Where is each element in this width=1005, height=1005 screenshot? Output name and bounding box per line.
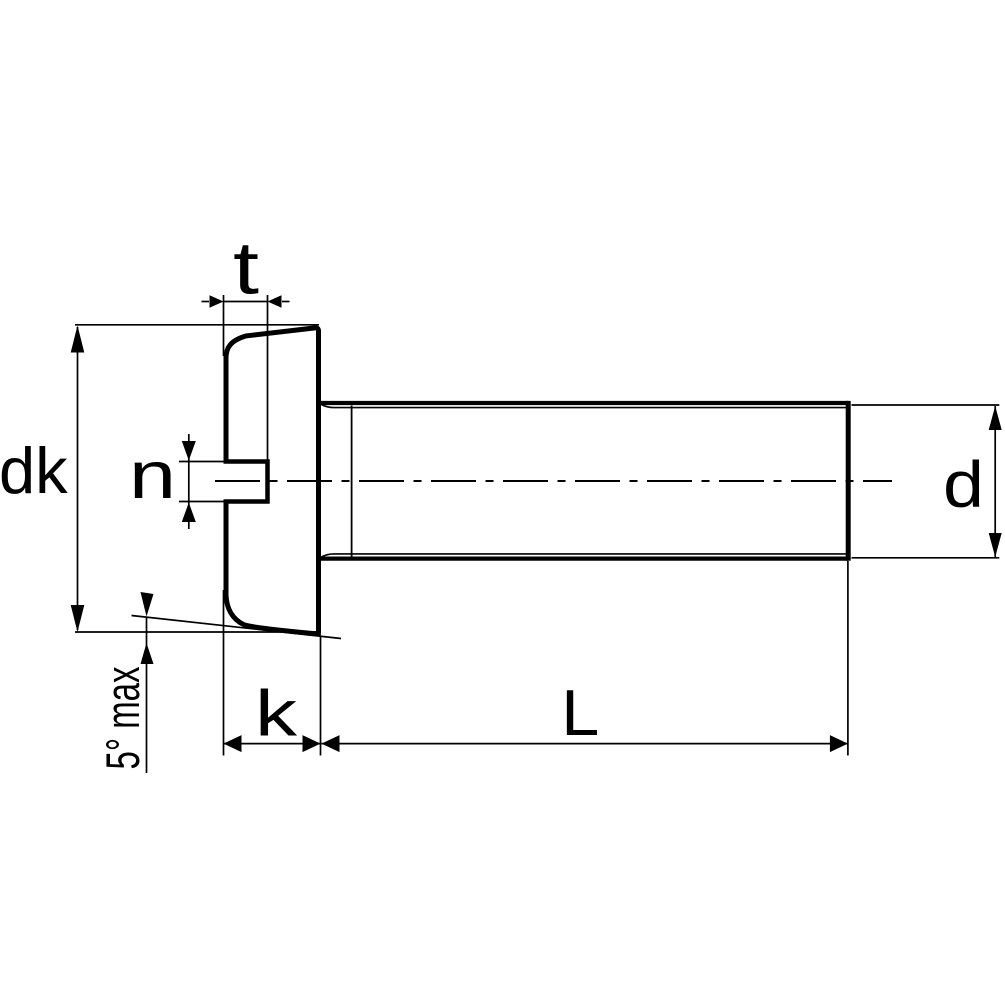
- svg-text:n: n: [129, 439, 176, 513]
- svg-text:5° max: 5° max: [97, 666, 150, 769]
- svg-text:t: t: [233, 227, 260, 310]
- svg-text:L: L: [561, 676, 599, 749]
- svg-text:dk: dk: [0, 434, 68, 507]
- svg-text:k: k: [255, 677, 298, 750]
- svg-text:d: d: [943, 448, 984, 521]
